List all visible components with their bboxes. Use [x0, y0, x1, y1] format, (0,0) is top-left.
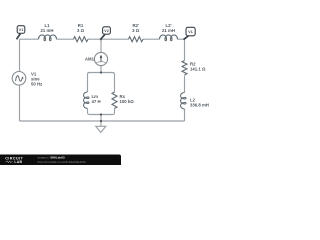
inductor Lm [83, 92, 100, 108]
svg-text:LAB: LAB [14, 160, 22, 164]
wire bottom rail [20, 120, 185, 122]
voltage source V1 (sine) [12, 72, 42, 87]
ground [96, 126, 106, 132]
ammeter AM1 [85, 52, 108, 65]
CircuitLab watermark [0, 155, 121, 166]
wire group left branch [87, 75, 89, 113]
svg-text:21 mH: 21 mH [41, 28, 54, 33]
svg-text:V1: V1 [19, 27, 25, 32]
voltage probe V2 [100, 27, 110, 40]
resistor R1 [74, 23, 89, 42]
wire top rail segments [20, 38, 185, 40]
svg-text:141.1 Ω: 141.1 Ω [190, 67, 206, 72]
inductor L1 [39, 23, 57, 40]
wire middle column [100, 39, 102, 72]
resistor R2 [182, 61, 206, 76]
svg-text:50 Hz: 50 Hz [31, 82, 42, 87]
node junction group bottom [100, 113, 102, 115]
wire parallel group top rail [88, 73, 115, 75]
svg-text:3 Ω: 3 Ω [132, 28, 140, 33]
wire ground stub [100, 115, 102, 127]
svg-text:336.8 mH: 336.8 mH [190, 103, 209, 108]
voltage probe VL [184, 27, 196, 39]
svg-text:AM1: AM1 [85, 57, 95, 62]
node junction top (V2 node) [100, 38, 102, 40]
wire left column [19, 39, 21, 121]
svg-text:3 Ω: 3 Ω [77, 28, 85, 33]
svg-text:V2: V2 [104, 28, 110, 33]
wire right column [184, 39, 186, 121]
inductor L2' [160, 23, 178, 40]
wire parallel group bottom rail [88, 113, 115, 115]
svg-text:100 kΩ: 100 kΩ [120, 99, 135, 104]
node junction group top [100, 71, 102, 73]
voltage probe V1 [17, 26, 25, 40]
wire group right branch [114, 75, 116, 113]
svg-text:http://circuitlab.com/c6vb4wb8: http://circuitlab.com/c6vb4wb8a33br/ [38, 160, 87, 164]
svg-text:VL: VL [188, 29, 194, 34]
inductor L2 [181, 93, 209, 109]
resistor Rx [112, 92, 134, 109]
node junction ground [100, 120, 102, 122]
resistor R2' [129, 23, 143, 42]
svg-text:21 mH: 21 mH [162, 28, 175, 33]
svg-text:47 H: 47 H [92, 99, 101, 104]
